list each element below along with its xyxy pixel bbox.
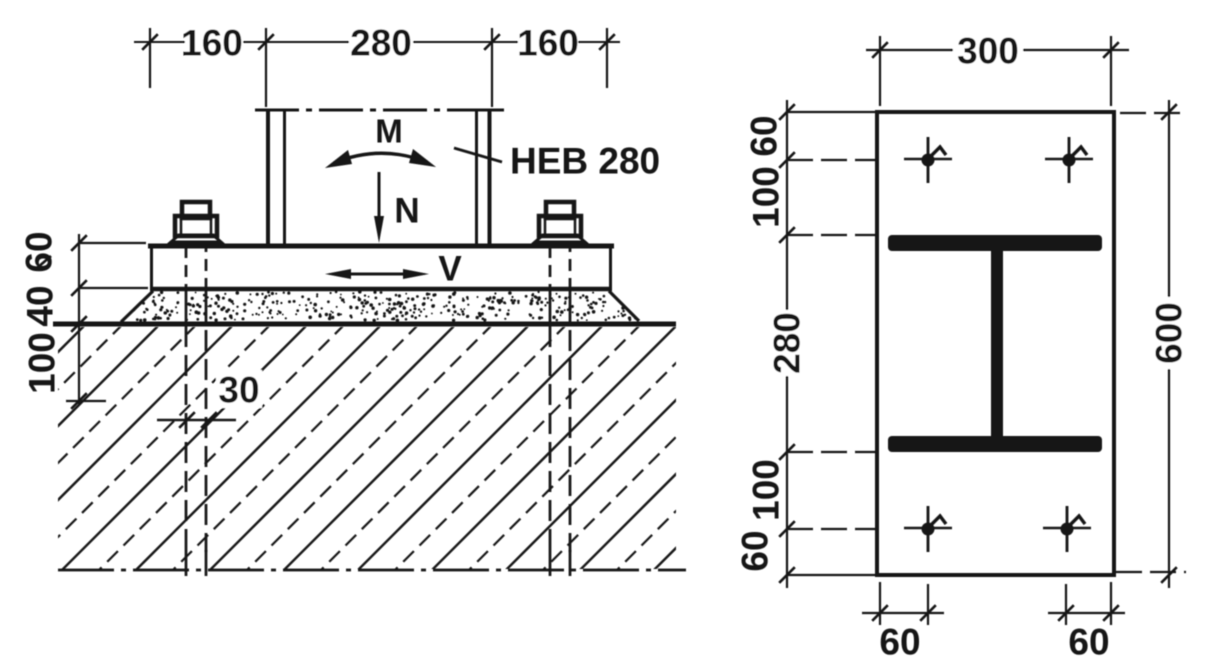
stray slash mark <box>37 256 51 268</box>
svg-text:60: 60 <box>735 530 776 571</box>
leader line to HEB 280 <box>454 148 502 162</box>
svg-text:60: 60 <box>1068 622 1109 663</box>
left dimension chain 60/40/100 <box>66 234 148 404</box>
svg-text:HEB 280: HEB 280 <box>510 141 660 182</box>
svg-text:160: 160 <box>181 23 243 64</box>
anchor bolt bottom-right (plan symbol) <box>1043 506 1091 552</box>
anchor bolt top-left (plan symbol) <box>904 137 952 183</box>
base plate (elevation) <box>148 246 614 289</box>
30 dimension (bolt dia) <box>157 419 236 421</box>
svg-text:280: 280 <box>350 23 412 64</box>
bottom dimensions 60 / 60 <box>862 582 1125 625</box>
svg-text:60: 60 <box>879 622 920 663</box>
axial force arrow N <box>374 172 384 243</box>
svg-text:160: 160 <box>517 23 579 64</box>
HEB 280 section: top flange <box>888 235 1102 251</box>
svg-text:100: 100 <box>746 166 787 228</box>
svg-text:30: 30 <box>218 370 259 411</box>
shear arrow V (double headed) <box>325 269 429 279</box>
svg-text:V: V <box>438 250 462 289</box>
right dimension 600 <box>1116 100 1188 588</box>
anchor bolt left shaft (dashed, embedded) <box>186 246 206 576</box>
svg-text:N: N <box>394 192 419 231</box>
bottom break chain line of foundation <box>58 569 686 572</box>
svg-text:100: 100 <box>746 459 787 521</box>
white clearance behind 30-dim text <box>216 370 262 408</box>
anchor bolt left head (nut + washer above base plate) <box>171 202 221 245</box>
svg-text:280: 280 <box>767 312 808 374</box>
anchor bolt bottom-left (plan symbol) <box>904 506 952 552</box>
top dimension 300 <box>866 36 1129 106</box>
anchor bolt right head (nut + washer above base plate) <box>535 202 585 245</box>
anchor bolt right shaft (dashed, embedded) <box>550 246 570 576</box>
top of concrete foundation (ground line) <box>53 322 676 327</box>
base plate outline (plan) <box>877 112 1114 575</box>
left dimension chain 60/100/280/100/60 <box>787 100 875 588</box>
svg-text:600: 600 <box>1149 302 1190 364</box>
svg-text:300: 300 <box>957 31 1019 72</box>
anchor bolt top-right (plan symbol) <box>1045 137 1093 183</box>
column HEB 280 flanges (elevation) <box>268 110 490 245</box>
top dimension line 160/280/160 <box>134 28 620 107</box>
HEB 280 section: bottom flange <box>888 436 1102 452</box>
HEB 280 section: web <box>991 247 1003 440</box>
svg-text:100: 100 <box>22 332 63 394</box>
grout pad (stippled trapezoid) <box>121 291 639 322</box>
svg-text:M: M <box>375 113 403 150</box>
moment arrow M <box>325 149 436 168</box>
column centre/break chain line at top <box>255 109 504 112</box>
svg-text:40: 40 <box>20 285 61 326</box>
svg-text:60: 60 <box>744 115 785 156</box>
